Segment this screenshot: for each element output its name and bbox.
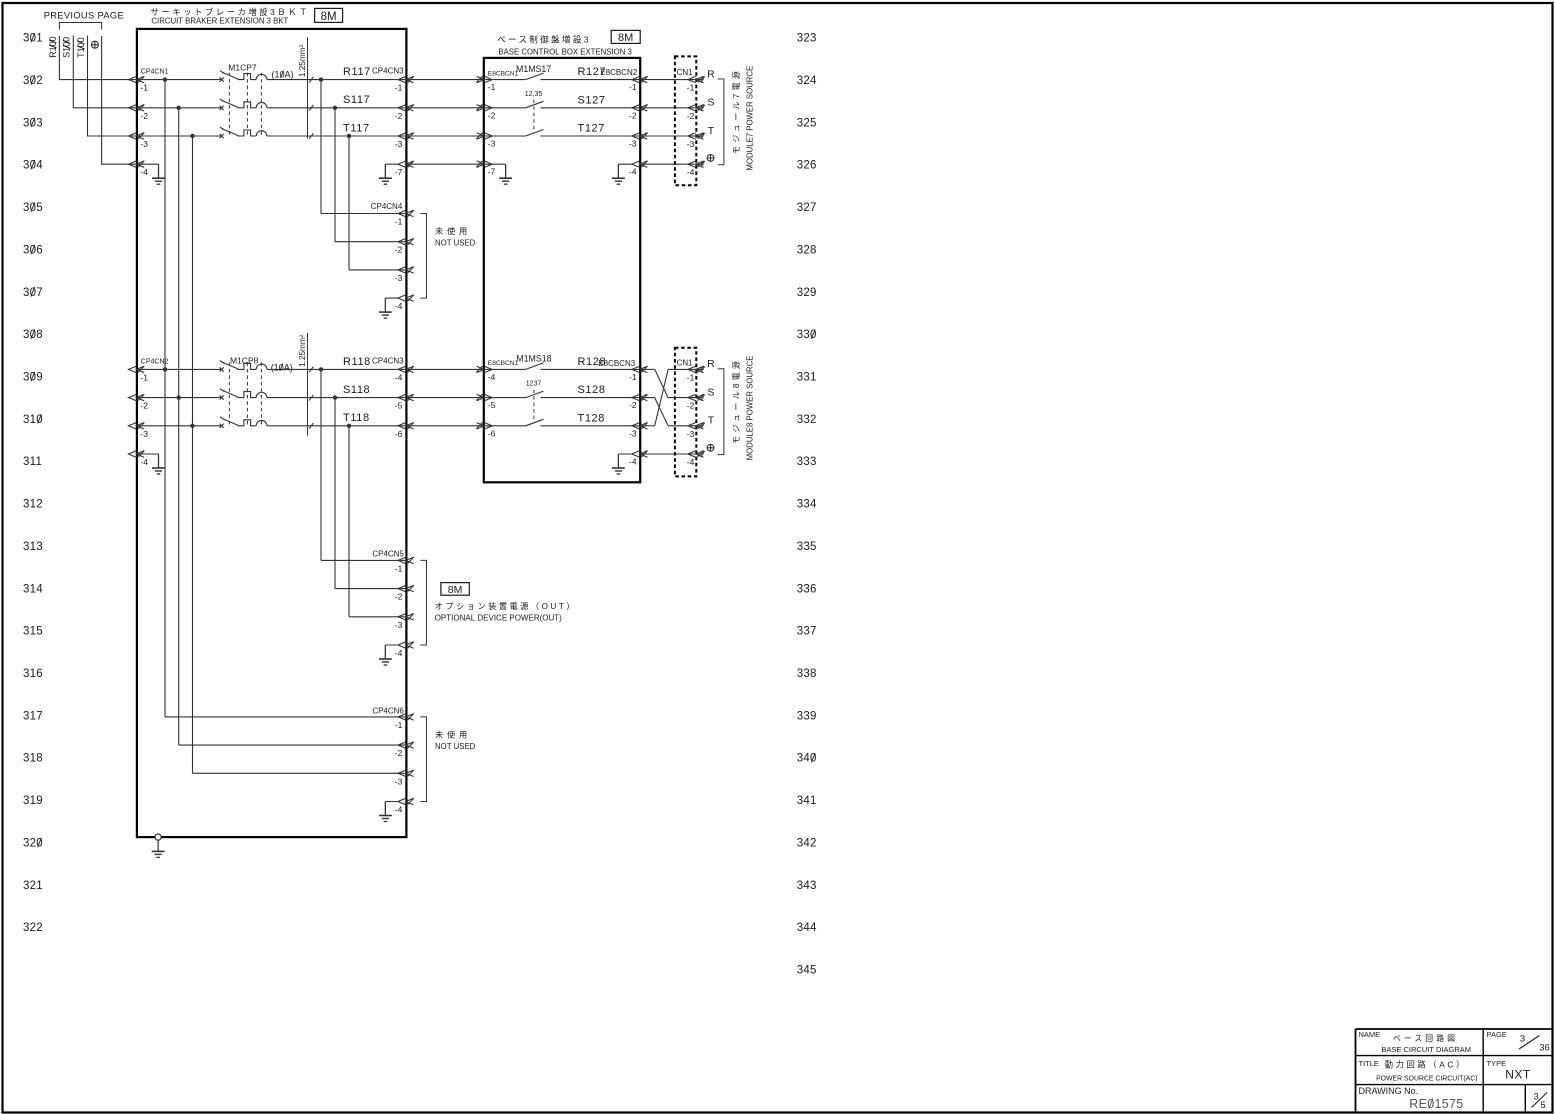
ground at CP4CN4-4 xyxy=(379,298,392,318)
connector E8CBCN1 pin -2 xyxy=(476,104,492,111)
svg-text:329: 329 xyxy=(797,287,817,299)
svg-text:340: 340 xyxy=(797,753,817,765)
svg-text:CP4CN3: CP4CN3 xyxy=(372,356,404,365)
svg-text:CN1: CN1 xyxy=(677,68,694,77)
svg-text:S117: S117 xyxy=(343,94,370,106)
connector CP4CN5 pin -1 xyxy=(398,557,414,564)
switch M1MS17 pole 3 xyxy=(526,130,544,137)
wire stub to module 8 terminal 4 xyxy=(696,451,704,457)
svg-text:S: S xyxy=(707,97,714,109)
wire E8CBCN3-4 ground stub xyxy=(618,454,632,468)
svg-text:-2: -2 xyxy=(140,401,148,411)
wire row: E8CBCN2 to CN1 pin 2 xyxy=(640,107,696,109)
wire T117 row: CP4CN3 to E8CBCN1 xyxy=(406,135,483,137)
svg-text:ベース回路図: ベース回路図 xyxy=(1393,1033,1458,1043)
svg-text:M1MS18: M1MS18 xyxy=(516,354,551,364)
svg-text:S118: S118 xyxy=(343,384,370,396)
svg-text:308: 308 xyxy=(23,329,43,341)
wire S100 from previous page xyxy=(73,36,137,108)
ground at CP4CN6-4 xyxy=(379,802,392,822)
svg-text:モジュール8電源: モジュール8電源 xyxy=(732,358,741,444)
wire CP4CN4-4 ground stub xyxy=(385,298,398,312)
connector CN1(m7) pin -3 xyxy=(688,133,704,140)
svg-text:331: 331 xyxy=(797,372,817,384)
svg-text:ベース制御盤増設3: ベース制御盤増設3 xyxy=(497,34,591,45)
connector CP4CN3 pin -7 xyxy=(398,161,414,168)
svg-text:320: 320 xyxy=(23,837,43,849)
wire R118 row: CP4CN2-1 to breaker M1CP8 xyxy=(137,368,222,370)
ground at CP4CN3-7 xyxy=(379,164,392,184)
wire to CP4CN6-3 xyxy=(193,772,407,774)
svg-text:-2: -2 xyxy=(140,111,148,121)
svg-text:-2: -2 xyxy=(395,748,403,758)
svg-text:322: 322 xyxy=(23,922,43,934)
svg-text:PREVIOUS PAGE: PREVIOUS PAGE xyxy=(44,10,124,20)
chassis terminal circle on box1 bottom edge xyxy=(155,834,161,840)
svg-text:-5: -5 xyxy=(488,400,496,410)
svg-text:CP4CN4: CP4CN4 xyxy=(371,202,403,211)
wire to CP4CN5-1 xyxy=(321,559,406,561)
svg-text:BASE CIRCUIT DIAGRAM: BASE CIRCUIT DIAGRAM xyxy=(1381,1045,1471,1054)
svg-text:-6: -6 xyxy=(395,429,403,439)
svg-text:E8CBCN1: E8CBCN1 xyxy=(488,70,519,77)
wire to CP4CN4-1 xyxy=(321,213,406,215)
svg-text:12,35: 12,35 xyxy=(525,91,543,98)
wire T118 row: breaker to CP4CN3-6 xyxy=(267,425,407,427)
svg-text:318: 318 xyxy=(23,753,43,765)
connector CP4CN2 pin -1 xyxy=(129,366,145,373)
connector E8CBCN3 pin -3 xyxy=(632,422,648,429)
connector E8CBCN1 pin -7 xyxy=(476,161,492,168)
connector CP4CN5 pin -3 xyxy=(398,613,414,620)
svg-text:341: 341 xyxy=(797,795,817,807)
svg-text:334: 334 xyxy=(797,499,817,511)
wire S118 row: CP4CN2-2 to breaker M1CP8 xyxy=(137,397,222,399)
wire row: E8CBCN2 to CN1 pin 3 xyxy=(640,135,696,137)
wire to CP4CN4-2 xyxy=(335,241,406,243)
wire CN1-1 stub (crossover) xyxy=(668,368,696,370)
wire S127 row: switch M1MS17 to E8CBCN2 xyxy=(541,107,641,109)
svg-text:-1: -1 xyxy=(395,217,403,227)
svg-text:335: 335 xyxy=(797,541,817,553)
connector CP4CN2 pin -4 xyxy=(129,451,145,458)
svg-text:-2: -2 xyxy=(395,245,403,255)
wire CP4CN5-4 ground stub xyxy=(385,645,398,659)
crossover wire S128 to CN1-3 xyxy=(655,398,668,426)
svg-text:TYPE: TYPE xyxy=(1487,1059,1507,1068)
connector CP4CN1 pin -1 xyxy=(129,76,145,83)
svg-text:サーキットブレーカ増設3ＢＫＴ: サーキットブレーカ増設3ＢＫＴ xyxy=(151,7,310,17)
svg-text:-3: -3 xyxy=(395,776,403,786)
svg-text:-1: -1 xyxy=(395,83,403,93)
wire CP4CN2-4 ground stub xyxy=(138,454,159,468)
junction: row 301 to bus (x=165.0) xyxy=(163,77,167,81)
svg-text:オプション装置電源（OUT）: オプション装置電源（OUT） xyxy=(435,601,577,611)
connector E8CBCN1 pin -1 xyxy=(476,76,492,83)
svg-text:CP4CN6: CP4CN6 xyxy=(372,706,404,715)
svg-text:317: 317 xyxy=(23,710,43,722)
svg-text:T127: T127 xyxy=(578,123,605,135)
wire T117 row: CP4CN1-3 to breaker M1CP7 xyxy=(137,135,222,137)
svg-text:-2: -2 xyxy=(687,111,695,121)
connector CN1(m8) pin -1 xyxy=(688,366,704,373)
junction: bus to CP4CN2-3 row xyxy=(190,424,194,428)
vertical wire T118 down to CP4CN5-3 xyxy=(348,426,350,617)
wire E8CBCN3-2 stub (crossover) xyxy=(640,397,655,399)
breaker M1CP8 pole 1 xyxy=(220,361,267,372)
bracket CP4CN6 not-used xyxy=(420,717,426,802)
svg-text:M1CP7: M1CP7 xyxy=(228,63,257,73)
connector CP4CN1 pin -4 xyxy=(129,161,145,168)
connector E8CBCN2 pin -4 xyxy=(632,161,648,168)
svg-text:-2: -2 xyxy=(488,110,496,120)
svg-text:-4: -4 xyxy=(140,167,148,177)
svg-text:-1: -1 xyxy=(395,563,403,573)
svg-text:PAGE: PAGE xyxy=(1487,1030,1507,1039)
connector CP4CN5 pin -4 xyxy=(398,642,414,649)
svg-text:-7: -7 xyxy=(488,167,496,177)
connector CP4CN2 pin -3 xyxy=(129,422,145,429)
svg-text:E8CBCN1: E8CBCN1 xyxy=(488,360,519,367)
svg-text:CP4CN5: CP4CN5 xyxy=(372,550,404,559)
wire S117 row: CP4CN1-2 to breaker M1CP7 xyxy=(137,107,222,109)
wire gauge marker 1.25mm2 (block1) xyxy=(298,37,314,138)
wire CP4CN6-4 ground stub xyxy=(385,802,398,816)
junction: S117 to CP4CN4-2 xyxy=(333,106,337,110)
svg-text:-1: -1 xyxy=(140,83,148,93)
svg-text:R117: R117 xyxy=(343,66,371,78)
vertical wire S117 down to CP4CN4-2 xyxy=(334,108,336,242)
svg-text:314: 314 xyxy=(23,583,43,595)
connector E8CBCN1 pin -4 xyxy=(476,366,492,373)
8M tag box (box2) xyxy=(611,30,640,43)
svg-text:-5: -5 xyxy=(395,401,403,411)
svg-text:CP4CN3: CP4CN3 xyxy=(372,67,404,76)
connector CN1(m7) pin -2 xyxy=(688,104,704,111)
svg-text:T: T xyxy=(708,125,715,137)
ground at CP4CN2-4 xyxy=(152,454,165,474)
svg-text:-2: -2 xyxy=(395,111,403,121)
label module 8 power source (japanese) xyxy=(732,358,741,444)
svg-text:-4: -4 xyxy=(629,457,637,467)
wire R118 row: breaker to CP4CN3-4 xyxy=(267,368,407,370)
svg-text:305: 305 xyxy=(23,202,43,214)
wire R127 row: switch M1MS17 to E8CBCN2 xyxy=(541,79,641,81)
wire to CP4CN6-2 xyxy=(179,744,407,746)
wire stub to module 7 terminal 1 xyxy=(696,76,704,82)
wire R117 row: breaker to CP4CN3-1 xyxy=(267,79,407,81)
vertical wire T117 down to CP4CN4-3 xyxy=(348,136,350,270)
ground at E8CBCN1-7 xyxy=(499,164,512,184)
connector CP4CN1 pin -3 xyxy=(129,133,145,140)
svg-text:E8CBCN3: E8CBCN3 xyxy=(598,359,635,368)
svg-text:POWER SOURCE CIRCUIT(AC): POWER SOURCE CIRCUIT(AC) xyxy=(1376,1075,1477,1082)
svg-text:304: 304 xyxy=(23,160,43,172)
svg-text:E8CBCN2: E8CBCN2 xyxy=(600,68,637,77)
connector CP4CN6 pin -2 xyxy=(398,742,414,749)
wire row: E8CBCN1 to switch M1MS18 xyxy=(484,368,526,370)
svg-text:315: 315 xyxy=(23,626,43,638)
label R100 xyxy=(48,36,58,58)
svg-text:333: 333 xyxy=(797,456,817,468)
svg-text:-3: -3 xyxy=(687,429,695,439)
svg-text:1237: 1237 xyxy=(526,381,542,388)
label module 7 power source (japanese) xyxy=(732,68,741,154)
junction: row 302 to bus (x=178.7) xyxy=(177,106,181,110)
wire CP4CN3-7 ground stub xyxy=(385,164,398,178)
connector CP4CN6 pin -3 xyxy=(398,770,414,777)
wire stub to module 8 terminal 3 xyxy=(696,423,704,429)
svg-text:313: 313 xyxy=(23,541,43,553)
svg-text:1.25mm²: 1.25mm² xyxy=(298,45,307,78)
svg-text:8M: 8M xyxy=(448,584,463,596)
connector E8CBCN1 pin -3 xyxy=(476,133,492,140)
connector E8CBCN3 pin -2 xyxy=(632,394,648,401)
svg-text:CIRCUIT BRAKER EXTENSION 3 BKT: CIRCUIT BRAKER EXTENSION 3 BKT xyxy=(151,16,288,25)
svg-text:301: 301 xyxy=(23,33,43,45)
wire S118 row: CP4CN3 to E8CBCN1 xyxy=(406,397,483,399)
switch M1MS18 pole 2 xyxy=(526,391,544,398)
svg-text:S127: S127 xyxy=(578,94,606,106)
svg-text:342: 342 xyxy=(797,837,817,849)
connector CP4CN2 pin -2 xyxy=(129,394,145,401)
svg-text:(10A): (10A) xyxy=(272,69,294,79)
svg-text:-3: -3 xyxy=(488,139,496,149)
connector CN1(m8) pin -4 xyxy=(688,451,704,458)
wire row: E8CBCN1 to switch xyxy=(484,79,526,81)
wire E8CBCN3-3 stub (crossover) xyxy=(640,425,655,427)
switch M1MS17 pole 2 xyxy=(526,101,544,108)
bracket module 8 power source xyxy=(718,369,724,455)
wire S118 row: breaker to CP4CN3-5 xyxy=(267,397,407,399)
svg-text:344: 344 xyxy=(797,922,817,934)
wire R117 row: CP4CN1-1 to breaker M1CP7 xyxy=(137,79,222,81)
wire to CP4CN5-3 xyxy=(349,616,406,618)
junction: S118 to CP4CN5-2 xyxy=(333,395,337,399)
svg-text:R: R xyxy=(707,358,715,370)
connector CP4CN3 pin -3 xyxy=(398,133,414,140)
wire R100 from previous page xyxy=(59,36,136,80)
svg-text:NOT USED: NOT USED xyxy=(435,238,476,247)
svg-text:-1: -1 xyxy=(629,82,637,92)
earth terminal symbol (module 8) xyxy=(707,444,714,451)
wire CN1-3 stub (crossover) xyxy=(668,425,696,427)
breaker M1CP8 mechanical link (dashed) xyxy=(229,362,261,425)
svg-text:5: 5 xyxy=(1540,1100,1545,1111)
wire row: E8CBCN2-4 to CN1-4 xyxy=(640,163,696,165)
wire R128 row: switch to E8CBCN3 xyxy=(541,368,641,370)
wire stub to module 7 terminal 3 xyxy=(696,133,704,139)
svg-text:326: 326 xyxy=(797,160,817,172)
svg-text:338: 338 xyxy=(797,668,817,680)
line number column 301-322 (left margin) xyxy=(23,33,43,935)
connector CP4CN3 pin -6 xyxy=(398,422,414,429)
ground at CP4CN1-4 xyxy=(152,164,165,184)
wire T118 row: CP4CN2-3 to breaker M1CP8 xyxy=(137,425,222,427)
ground at E8CBCN3-4 xyxy=(612,454,625,474)
svg-text:339: 339 xyxy=(797,710,817,722)
svg-text:-3: -3 xyxy=(395,620,403,630)
svg-text:-4: -4 xyxy=(395,648,403,658)
crossover wire T128 to CN1-1 xyxy=(655,369,668,425)
wire stub to module 8 terminal 1 xyxy=(696,366,704,372)
connector CP4CN1 pin -2 xyxy=(129,104,145,111)
svg-text:343: 343 xyxy=(797,880,817,892)
switch M1MS18 pole 3 xyxy=(526,419,544,426)
earth symbol on PE feed xyxy=(91,41,98,48)
svg-text:T117: T117 xyxy=(343,122,370,134)
switch M1MS17 link (dashed) xyxy=(533,100,535,132)
8M tag box (CP4CN5) xyxy=(441,583,469,596)
svg-text:-1: -1 xyxy=(488,82,496,92)
svg-text:-3: -3 xyxy=(395,273,403,283)
svg-text:MODULE8 POWER SOURCE: MODULE8 POWER SOURCE xyxy=(745,356,754,461)
svg-text:306: 306 xyxy=(23,244,43,256)
wire S117 row: CP4CN3 to E8CBCN1 xyxy=(406,107,483,109)
svg-text:327: 327 xyxy=(797,202,817,214)
wire T118 row: CP4CN3 to E8CBCN1 xyxy=(406,425,483,427)
bracket CP4CN5 optional power xyxy=(420,560,426,645)
wire PE (earth) from previous page xyxy=(102,36,137,164)
ground at box1 chassis xyxy=(152,837,165,857)
svg-text:-1: -1 xyxy=(687,83,695,93)
svg-text:-4: -4 xyxy=(395,301,403,311)
wire gauge marker 1.25mm2 (block2) xyxy=(298,333,314,436)
svg-text:(10A): (10A) xyxy=(271,362,293,372)
ground at CP4CN5-4 xyxy=(379,645,392,665)
svg-text:-4: -4 xyxy=(687,167,695,177)
bracket module 7 power source xyxy=(718,79,724,165)
svg-text:-7: -7 xyxy=(395,167,403,177)
wire S117 row: breaker to CP4CN3-2 xyxy=(267,107,407,109)
svg-text:323: 323 xyxy=(797,33,817,45)
svg-text:336: 336 xyxy=(797,583,817,595)
svg-text:-4: -4 xyxy=(395,372,403,382)
wire row: E8CBCN2 to CN1 pin 1 xyxy=(640,79,696,81)
svg-text:337: 337 xyxy=(797,626,817,638)
wire R118 row: CP4CN3 to E8CBCN1 xyxy=(406,368,483,370)
svg-text:-1: -1 xyxy=(629,372,637,382)
wire stub to module 8 terminal 2 xyxy=(696,394,704,400)
connector E8CBCN1 pin -5 xyxy=(476,394,492,401)
svg-text:311: 311 xyxy=(23,456,42,468)
wire T100 from previous page xyxy=(88,36,137,137)
breaker M1CP7 pole 1 xyxy=(220,71,267,82)
svg-text:R118: R118 xyxy=(343,356,371,368)
svg-text:-1: -1 xyxy=(140,372,148,382)
line number column 323-345 (right margin) xyxy=(797,33,817,977)
switch M1MS18 link (dashed) xyxy=(533,390,535,422)
wire row: E8CBCN3-4 to CN1-4 (module 8) xyxy=(640,453,696,455)
junction: R117 to CP4CN4-1 xyxy=(319,77,323,81)
connector CN1(m8) pin -3 xyxy=(688,422,704,429)
svg-text:-2: -2 xyxy=(629,110,637,120)
connector CN1(m7) pin -1 xyxy=(688,76,704,83)
svg-text:-3: -3 xyxy=(140,139,148,149)
breaker M1CP8 pole 2 xyxy=(220,389,267,400)
switch M1MS18 pole 1 xyxy=(526,363,544,370)
connector E8CBCN2 pin -3 xyxy=(632,133,648,140)
svg-text:M1MS17: M1MS17 xyxy=(516,64,551,74)
crossover wire R128 to CN1-2 xyxy=(655,369,668,397)
wire T128 row: switch to E8CBCN3 xyxy=(541,425,641,427)
svg-text:未使用: 未使用 xyxy=(435,226,471,236)
connector CP4CN5 pin -2 xyxy=(398,585,414,592)
svg-text:CN1: CN1 xyxy=(677,358,694,367)
svg-text:-2: -2 xyxy=(629,400,637,410)
wire R117 row: CP4CN3 to E8CBCN1 xyxy=(406,79,483,81)
wire E8CBCN2-4 ground stub xyxy=(618,164,632,178)
svg-text:303: 303 xyxy=(23,117,43,129)
enclosure box: base control box extension 3 xyxy=(484,58,640,482)
svg-text:-4: -4 xyxy=(629,167,637,177)
svg-text:-4: -4 xyxy=(687,457,695,467)
svg-text:RE01575: RE01575 xyxy=(1409,1097,1463,1111)
svg-text:-4: -4 xyxy=(140,457,148,467)
connector E8CBCN3 pin -1 xyxy=(632,366,648,373)
svg-text:-1: -1 xyxy=(687,372,695,382)
breaker M1CP8 pole 3 xyxy=(220,417,267,428)
connector CP4CN3 pin -1 xyxy=(398,76,414,83)
svg-text:T: T xyxy=(708,415,715,427)
wire to CP4CN4-3 xyxy=(349,269,406,271)
svg-text:321: 321 xyxy=(23,880,43,892)
svg-text:BASE CONTROL BOX EXTENSION 3: BASE CONTROL BOX EXTENSION 3 xyxy=(498,48,631,57)
svg-text:302: 302 xyxy=(23,75,43,87)
vertical wire S118 down to CP4CN5-2 xyxy=(334,398,336,589)
wire row: E8CBCN1 to switch xyxy=(484,135,526,137)
connector CP4CN4 pin -4 xyxy=(398,295,414,302)
wire row: E8CBCN1 to switch xyxy=(484,107,526,109)
svg-text:1.25mm²: 1.25mm² xyxy=(298,334,307,367)
breaker M1CP7 pole 3 xyxy=(220,127,267,138)
enclosure box: circuit breaker extension 3 BKT xyxy=(137,29,407,837)
breaker M1CP7 mechanical link (dashed) xyxy=(229,73,261,136)
wire S128 row: switch to E8CBCN3 xyxy=(541,397,641,399)
svg-text:-2: -2 xyxy=(395,592,403,602)
svg-text:NXT: NXT xyxy=(1505,1068,1531,1082)
wire E8CBCN3-1 stub (crossover) xyxy=(640,368,655,370)
wire stub to module 7 terminal 4 xyxy=(696,161,704,167)
svg-text:動力回路（AC）: 動力回路（AC） xyxy=(1385,1059,1467,1069)
svg-text:332: 332 xyxy=(797,414,817,426)
connector CP4CN4 pin -1 xyxy=(398,210,414,217)
junction: R118 to CP4CN5-1 xyxy=(319,367,323,371)
svg-text:T118: T118 xyxy=(343,412,370,424)
svg-text:-3: -3 xyxy=(140,429,148,439)
switch M1MS17 pole 1 xyxy=(526,73,544,80)
svg-text:-3: -3 xyxy=(629,428,637,438)
svg-text:310: 310 xyxy=(23,414,43,426)
wire row 304: CP4CN3-7 to E8CBCN1-7 xyxy=(406,163,483,165)
svg-text:-2: -2 xyxy=(687,401,695,411)
svg-text:R: R xyxy=(707,68,715,80)
connector CP4CN3 pin -4 xyxy=(398,366,414,373)
connector CN1 (module 7) dashed outline xyxy=(675,56,696,185)
connector E8CBCN3 pin -4 xyxy=(632,451,648,458)
svg-text:3: 3 xyxy=(1520,1034,1525,1045)
svg-text:-1: -1 xyxy=(395,720,403,730)
vertical bus wire from row 302 down to CP4CN6-2 xyxy=(178,108,180,745)
connector CP4CN4 pin -2 xyxy=(398,238,414,245)
wire T117 row: breaker to CP4CN3-3 xyxy=(267,135,407,137)
svg-text:未使用: 未使用 xyxy=(435,730,471,740)
svg-text:DRAWING No.: DRAWING No. xyxy=(1359,1086,1419,1096)
svg-text:330: 330 xyxy=(797,329,817,341)
svg-text:S: S xyxy=(707,386,714,398)
svg-text:325: 325 xyxy=(797,117,817,129)
vertical bus wire from row 303 down to CP4CN6-3 xyxy=(192,136,194,773)
